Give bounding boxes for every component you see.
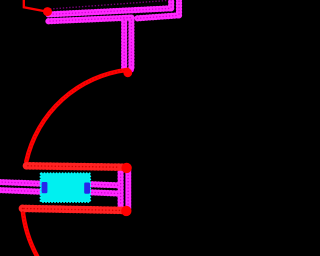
wire: magenta inner-layer trace band2 from via V1 [49, 18, 132, 22]
texture: dark pinch dots along red bars and arc [23, 70, 128, 256]
wire: magenta vertical trace to top edge (net 1) [169, 0, 174, 8]
via V4 (bracket bottom-right) [121, 206, 131, 216]
pad P1 (left, blue) [42, 182, 48, 193]
wire: red trace entering from top edge [24, 0, 45, 11]
component U1 body (cyan footprint) [41, 173, 91, 202]
wire: magenta vertical strip L teed from band2 down to via V2 [122, 18, 127, 70]
wire: red bottom bar of bracket [23, 208, 123, 210]
scallop texture overlay on red bars [23, 166, 123, 211]
ratsnest airwire from via V1 to top edge [50, 1, 167, 10]
component U1 dotted outline texture [41, 173, 91, 202]
wire: left stub trace 1 to pad P1 [0, 182, 44, 184]
pad P2 (right, blue) [84, 183, 90, 194]
wire: magenta inner-layer trace band1 from via V1 to corner [0, 0, 179, 209]
via V2 (arc start) [123, 68, 132, 77]
wire: big red arc trace lower segment (from bottom bar to bottom edge) [23, 209, 38, 256]
wire: magenta vertical strip R from band2 corner down to via V2 [129, 18, 134, 70]
wire: right stub trace 2 from pad P2 [86, 192, 121, 194]
wire: right stub trace 1 from pad P2 [86, 184, 121, 185]
via V3 (bracket top-right) [121, 163, 131, 173]
wire: left stub trace 2 to pad P1 [0, 190, 44, 192]
wire: magenta vertical strip1 beside component [118, 173, 123, 208]
wire: magenta vertical trace 2 to top edge [177, 0, 182, 15]
via V1 (top-left) [43, 7, 52, 16]
wire: red top bar of bracket [27, 166, 123, 167]
wire: magenta vertical strip2 between via V3 and via V4 [125, 171, 131, 209]
texture: dark pinch dots along magenta traces [0, 0, 179, 207]
wire: big red arc trace upper segment (from via V2 to top bar) [26, 70, 127, 162]
wire: magenta trace band3 going to top-right corner [138, 15, 180, 18]
scallop texture overlay on magenta traces [0, 0, 179, 209]
